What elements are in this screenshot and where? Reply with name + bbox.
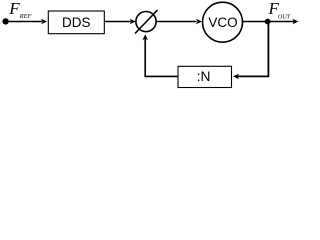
svg-text:VCO: VCO <box>208 15 237 30</box>
svg-text:REF: REF <box>19 13 33 20</box>
svg-text:OUT: OUT <box>278 14 291 20</box>
svg-text::N: :N <box>197 69 211 84</box>
svg-text:DDS: DDS <box>62 15 91 30</box>
svg-text:F: F <box>8 0 20 18</box>
